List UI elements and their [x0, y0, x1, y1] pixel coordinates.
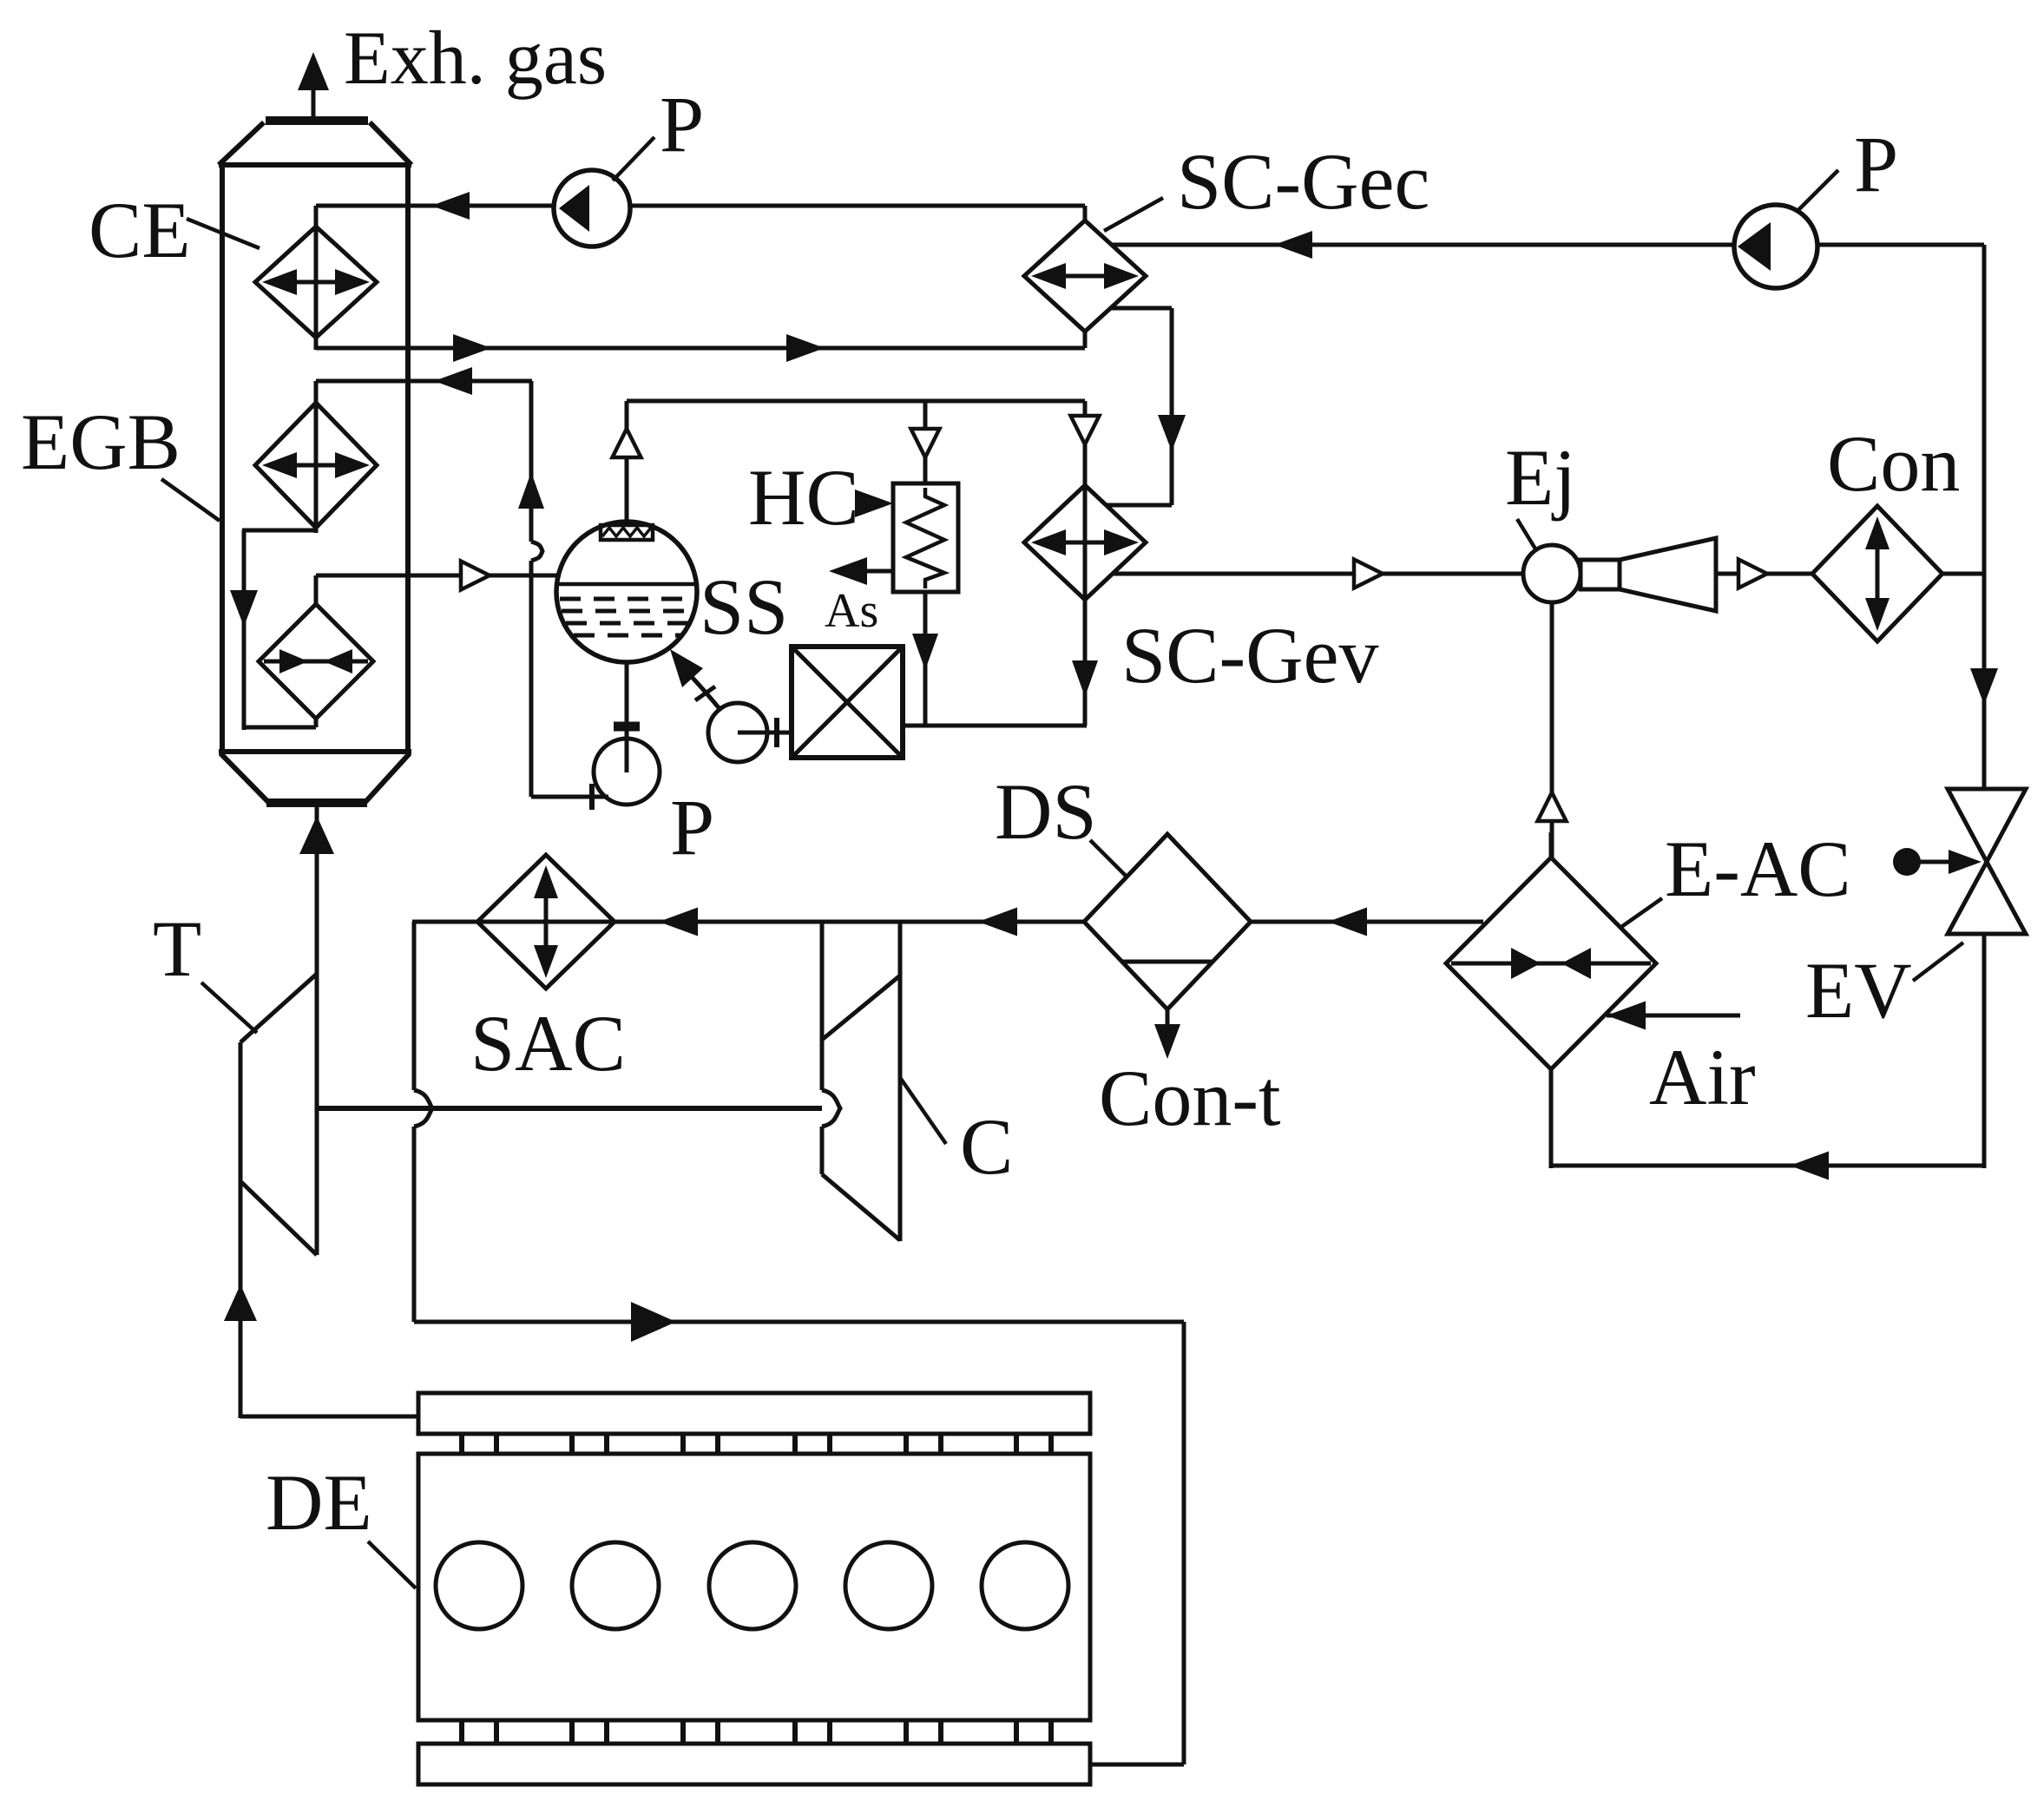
- label EGB: [21, 398, 220, 521]
- label P (pump P1): [613, 80, 704, 181]
- wire condenser outlet: [1942, 572, 1986, 576]
- label SC-Gev: [1121, 611, 1378, 700]
- wire evaporator outlet to drum: [316, 562, 556, 605]
- wire right column x=2286: [1970, 245, 1998, 788]
- svg-text:CE: CE: [89, 186, 191, 274]
- wire to E-AC bottom (y=1343): [1551, 1069, 1986, 1180]
- svg-text:SAC: SAC: [470, 999, 626, 1087]
- wire As-pump to drum: [670, 649, 721, 711]
- heat exchanger SC-Gec: [1024, 220, 1146, 332]
- label CE: [89, 186, 260, 274]
- svg-text:HC: HC: [748, 453, 859, 542]
- wire E-AC top vertex: [1549, 832, 1554, 859]
- heat exchanger EGB: [255, 403, 377, 528]
- pump P3 (drum circulation): [594, 739, 660, 805]
- label EV: [1805, 943, 1963, 1035]
- svg-text:T: T: [153, 904, 201, 993]
- wire SC-Gec to SC-Gev link: [1106, 308, 1186, 505]
- label Exh. gas: [344, 16, 607, 101]
- wire drop to SC-Gev: [1071, 401, 1100, 486]
- wire As outlet arrow: [829, 557, 893, 585]
- wire E-AC to DS (y=1062): [1251, 908, 1483, 936]
- label Air: [1649, 1033, 1756, 1121]
- exhaust stack arrow: [298, 52, 329, 122]
- wire HC condensate drop: [912, 592, 938, 727]
- svg-text:Air: Air: [1649, 1033, 1756, 1121]
- heat exchanger SC-Gev: [1024, 485, 1146, 600]
- engine cylinders: [436, 1542, 1068, 1629]
- SAC box right edge with shaft jump: [822, 922, 840, 1174]
- heat exchanger CE: [255, 227, 377, 338]
- label SS: [700, 562, 788, 651]
- wire ejector suction: [1538, 602, 1567, 858]
- wire As-pump outlet: [738, 718, 792, 747]
- svg-text:Con: Con: [1827, 419, 1960, 508]
- wire turbine exhaust to EGB: [299, 803, 334, 976]
- svg-text:As: As: [825, 584, 878, 638]
- wire ejector discharge: [1716, 560, 1814, 588]
- heat consumer As box: [792, 647, 903, 758]
- wire scavenge air to engine: [414, 1302, 1184, 1764]
- wire turbine inlet from engine: [224, 1181, 420, 1418]
- wire steam riser from drum: [613, 401, 641, 522]
- label As: [825, 584, 878, 638]
- wire SC-Gec riser: [1083, 332, 1088, 348]
- wire As return (y=836): [901, 724, 1087, 728]
- wire pump P3 outlet: [531, 784, 608, 810]
- label Ej: [1505, 433, 1576, 550]
- heat exchanger EGB evaporator section: [259, 604, 373, 719]
- label SAC: [470, 999, 626, 1087]
- diesel engine DE body: [418, 1393, 1090, 1784]
- wire EGB downcomer loop: [230, 530, 316, 730]
- wire Air inlet arrow: [1607, 1002, 1740, 1030]
- label E-AC: [1621, 825, 1851, 927]
- condenser Con: [1812, 506, 1942, 641]
- label DS: [995, 767, 1127, 877]
- wire SC-Gec top to pump line: [1083, 206, 1088, 222]
- label SC-Gec: [1104, 137, 1429, 231]
- wire riser x=612 to EGB feed: [518, 381, 544, 797]
- drain separator DS: [1084, 834, 1251, 1009]
- pump P2: [1734, 205, 1817, 288]
- svg-text:SC-Gev: SC-Gev: [1121, 611, 1378, 700]
- wire vapor line to ejector: [1113, 560, 1525, 588]
- air cooler diamond on SAC: [477, 855, 615, 989]
- label Con: [1827, 419, 1960, 508]
- EV sensor bulb: [1893, 848, 1982, 876]
- ejector Ej: [1523, 538, 1716, 611]
- compressor C: [822, 922, 900, 1241]
- svg-text:DS: DS: [995, 767, 1097, 856]
- svg-text:E-AC: E-AC: [1665, 825, 1851, 913]
- svg-text:DE: DE: [266, 1458, 372, 1547]
- label P (pump P2): [1798, 120, 1898, 210]
- wire DS drain: [1154, 1009, 1180, 1059]
- svg-text:SS: SS: [700, 562, 788, 651]
- svg-text:P: P: [1854, 120, 1898, 208]
- svg-text:Ej: Ej: [1505, 433, 1576, 522]
- svg-text:EGB: EGB: [21, 398, 181, 486]
- svg-text:P: P: [660, 80, 704, 168]
- SAC box left edge with shaft jump: [414, 922, 432, 1322]
- heating coil HC box: [893, 483, 958, 592]
- wire CE outlet (y=401): [316, 334, 1085, 362]
- svg-text:C: C: [960, 1102, 1013, 1191]
- label DE: [266, 1458, 416, 1588]
- label HC with inlet arrow: [748, 453, 893, 542]
- turbine T: [240, 974, 317, 1255]
- wire scavenge header (y=1062): [412, 908, 1085, 936]
- wire EGB riser x=364: [314, 381, 319, 533]
- wire SC-Gev drop: [1072, 486, 1098, 726]
- svg-text:Con-t: Con-t: [1099, 1054, 1281, 1142]
- svg-text:Exh. gas: Exh. gas: [344, 16, 607, 101]
- wire saturated steam header (y=462): [627, 399, 1085, 404]
- label T: [153, 904, 257, 1033]
- shaft turbine-compressor: [317, 1106, 822, 1111]
- pump As-feed: [708, 703, 767, 762]
- wire drum blowdown to pump: [614, 662, 640, 772]
- label P (pump P3): [670, 783, 714, 871]
- wire heating water line (y=282): [1112, 231, 1984, 259]
- expansion valve EV: [1948, 789, 2026, 934]
- wire CE riser x=364: [314, 206, 319, 350]
- pump P1: [554, 170, 630, 246]
- wire EGB feed (y=439): [316, 367, 532, 395]
- wire EV outlet down: [1982, 936, 1987, 1168]
- heat exchanger E-AC: [1446, 858, 1656, 1069]
- svg-text:SC-Gec: SC-Gec: [1177, 137, 1429, 226]
- steam separator drum SS: [556, 522, 697, 662]
- wire branch to HC: [911, 401, 940, 483]
- label Con-t: [1099, 1054, 1281, 1142]
- wire feed line into CE (y=237): [316, 192, 1085, 220]
- svg-text:EV: EV: [1805, 946, 1912, 1035]
- svg-text:P: P: [670, 783, 714, 871]
- vessel EGB shell: [219, 121, 411, 803]
- label C: [901, 1079, 1013, 1191]
